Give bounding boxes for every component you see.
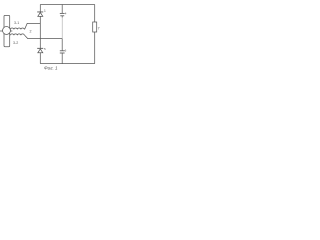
svg-text:7: 7 xyxy=(98,27,100,31)
svg-text:3-1: 3-1 xyxy=(14,21,19,25)
svg-text:2: 2 xyxy=(30,29,32,33)
svg-text:1: 1 xyxy=(44,9,46,13)
svg-text:3-2: 3-2 xyxy=(13,41,18,45)
svg-text:Фиг. 1: Фиг. 1 xyxy=(44,66,58,71)
